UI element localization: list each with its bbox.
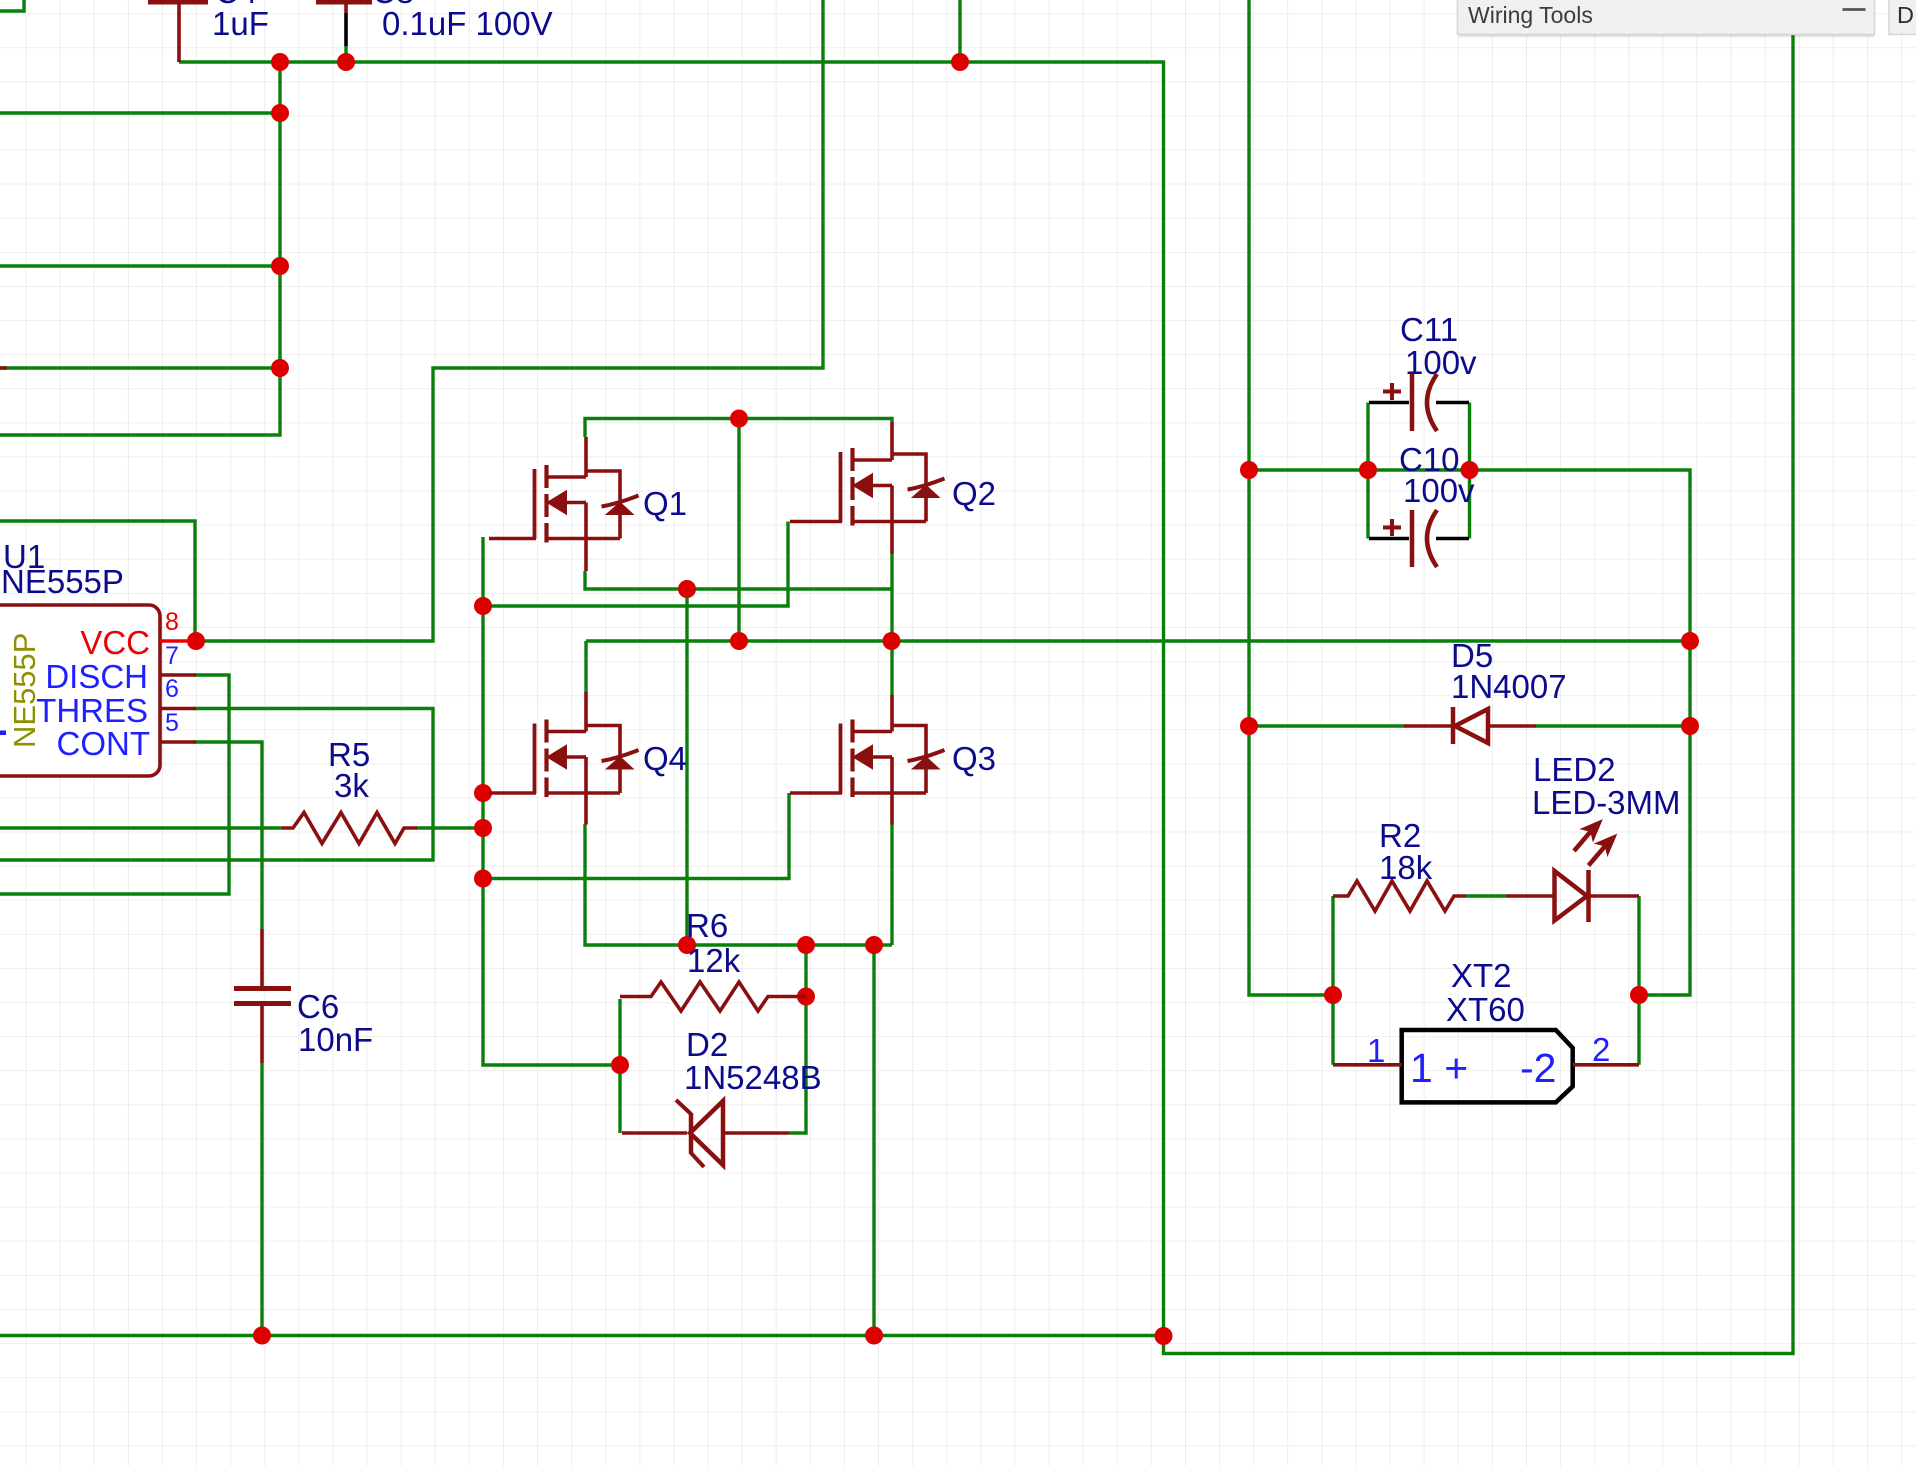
- svg-text:LED-3MM: LED-3MM: [1532, 784, 1681, 821]
- svg-text:3k: 3k: [334, 767, 369, 804]
- junction low rail x=806: [797, 936, 815, 954]
- pin 5 stub CONT: [160, 740, 196, 744]
- wire C-block top y=470 and right drop x=1690: [1249, 470, 1690, 995]
- svg-text:NE555P: NE555P: [7, 633, 42, 748]
- chip pin names: [36, 624, 150, 762]
- svg-text:7: 7: [165, 642, 179, 670]
- wire x=739 drop: [737, 419, 740, 642]
- junction bus C6: [253, 1327, 271, 1345]
- wire gate column x=483: [483, 537, 620, 1065]
- svg-text:12k: 12k: [687, 942, 741, 979]
- wire pin7 DISCH: [0, 675, 229, 894]
- wire D5 right: [1535, 724, 1690, 727]
- wire x=687 drop: [685, 589, 688, 945]
- junction y=266: [271, 257, 289, 275]
- junction gate net 2: [474, 870, 492, 888]
- wire R2-LED link: [1466, 894, 1506, 897]
- pin 8 stub VCC: [160, 639, 190, 643]
- svg-text:Q1: Q1: [643, 485, 687, 522]
- junction XT2 left: [1324, 986, 1342, 1004]
- junction vcc x=891: [883, 632, 901, 650]
- wire Q3 source drop: [890, 824, 893, 945]
- junction top rail: [730, 410, 748, 428]
- wire C11/C10 right vertical: [1468, 403, 1471, 539]
- wire R5 right: [416, 826, 483, 829]
- svg-text:C4: C4: [215, 0, 257, 10]
- wire XT2 pin2 riser: [1637, 995, 1640, 1065]
- resistor R2 18k: [1333, 881, 1466, 911]
- op-amp U1 NE555P chip body: [0, 605, 160, 776]
- svg-text:XT2: XT2: [1451, 957, 1512, 994]
- svg-text:VCC: VCC: [80, 624, 150, 661]
- wire bottom bus: [0, 1334, 1164, 1337]
- junction top bus B: [337, 53, 355, 71]
- transistor Q4: [489, 692, 639, 825]
- Q1 source lead: [584, 539, 588, 572]
- svg-text:R6: R6: [686, 907, 728, 944]
- junction y=368: [271, 359, 289, 377]
- svg-text:D: D: [1897, 2, 1914, 28]
- svg-text:THRES: THRES: [36, 692, 148, 729]
- clipped label bottoms at canvas top: [215, 0, 414, 10]
- wire C11/C10 left vertical: [1366, 403, 1369, 539]
- wire pin8 upper-left branch: [0, 521, 195, 641]
- junction top bus A: [271, 53, 289, 71]
- wire XT2 pin1 riser: [1331, 995, 1334, 1065]
- svg-text:DISCH: DISCH: [45, 658, 148, 695]
- svg-text:1: 1: [1367, 1032, 1385, 1069]
- wire C6 bottom: [260, 1063, 263, 1336]
- junction Q4 gate: [474, 784, 492, 802]
- svg-text:C8: C8: [372, 0, 414, 10]
- capacitor C2 top (0.1uF 100V) plate and lead: [316, 0, 372, 46]
- Q2 source lead: [890, 522, 894, 555]
- svg-text:C11: C11: [1400, 311, 1458, 348]
- svg-text:1N5248B: 1N5248B: [684, 1059, 822, 1096]
- diode D2 1N5248B zener: [622, 1100, 789, 1167]
- svg-text:1 +: 1 +: [1410, 1045, 1468, 1091]
- resistor R5 3k: [282, 813, 417, 844]
- capacitor C11 100v polarized: [1369, 374, 1469, 431]
- wire LED right riser: [1637, 896, 1640, 995]
- junction vcc x=1690: [1681, 632, 1699, 650]
- svg-text:XT60: XT60: [1446, 991, 1525, 1028]
- svg-text:2: 2: [1592, 1031, 1610, 1068]
- wire stub y=368: [0, 366, 280, 369]
- clipped blue pin-name dash at canvas left edge: [0, 731, 6, 736]
- svg-text:100v: 100v: [1405, 344, 1477, 381]
- wire gate net y=606 to Q2 gate: [483, 522, 788, 607]
- wire gate net y=878.5 to Q3 gate: [483, 793, 789, 879]
- junction R6 right: [797, 988, 815, 1006]
- svg-text:18k: 18k: [1379, 849, 1433, 886]
- junction cap block left: [1240, 461, 1258, 479]
- wire bridge top rail y=418.5: [585, 419, 892, 438]
- svg-text:Wiring Tools: Wiring Tools: [1468, 2, 1593, 28]
- svg-text:8: 8: [165, 608, 179, 636]
- svg-text:0.1uF 100V: 0.1uF 100V: [382, 5, 553, 42]
- junction R5 out: [474, 819, 492, 837]
- wire R6/D2 left vertical: [618, 999, 621, 1133]
- wire x=806 drop to D2: [789, 945, 806, 1133]
- PANELS: [1458, 0, 1916, 37]
- wire Q2 source to Q3 drain: [890, 554, 893, 695]
- junction gate net: [474, 597, 492, 615]
- resistor R6 12k: [620, 982, 806, 1011]
- capacitor C1 top (1uF) plate and lead: [148, 0, 208, 62]
- capacitor C10 100v polarized: [1369, 510, 1469, 567]
- wire R2 left riser: [1331, 896, 1334, 995]
- wire D5 left: [1250, 724, 1405, 727]
- transistor Q1: [489, 437, 639, 543]
- panel Drawing Tools (cut): [1889, 0, 1916, 35]
- wire x=874 drop: [872, 945, 875, 1336]
- svg-text:C6: C6: [297, 988, 339, 1025]
- junction bus x=1163: [1155, 1327, 1173, 1345]
- junction XT2 right: [1630, 986, 1648, 1004]
- wire left column x=280 down to y=435 then left: [0, 62, 280, 435]
- wire Q4 source drop: [585, 824, 892, 945]
- diode D5 1N4007: [1404, 707, 1536, 744]
- junction cap block mid: [1359, 461, 1377, 479]
- capacitor C6 10nF plates: [234, 929, 291, 1063]
- junction vcc x=739: [730, 632, 748, 650]
- chip pin numbers: [165, 608, 179, 737]
- pin 7 stub DISCH: [160, 673, 196, 677]
- wire pin8 to top via x=433 and x=823: [196, 0, 823, 641]
- wire stub y=113: [0, 111, 280, 114]
- wire top drop x=960: [958, 0, 961, 62]
- svg-text:100v: 100v: [1403, 472, 1475, 509]
- wire VCC mid y=641: [586, 639, 1690, 642]
- wire top-left corner: [0, 0, 24, 11]
- svg-text:D2: D2: [686, 1026, 728, 1063]
- svg-text:CONT: CONT: [57, 725, 151, 762]
- wire right spine x=1249: [1249, 0, 1333, 995]
- svg-text:5: 5: [165, 709, 179, 737]
- junction top bus C: [951, 53, 969, 71]
- junction y=113: [271, 104, 289, 122]
- svg-text:10nF: 10nF: [298, 1021, 373, 1058]
- junction low rail x=687: [678, 936, 696, 954]
- wire cap2 green stub: [344, 45, 347, 62]
- svg-text:Q3: Q3: [952, 740, 996, 777]
- junction bus x=874: [865, 1327, 883, 1345]
- svg-text:1uF: 1uF: [212, 5, 269, 42]
- junction pin8: [187, 632, 205, 650]
- junction D5 left: [1240, 717, 1258, 735]
- panel Wiring Tools: [1458, 0, 1875, 37]
- left pin stub (clipped) on y=368 wire: [0, 366, 7, 370]
- wire Q1 source to mid rail: [585, 571, 892, 589]
- wire Q4 drain riser: [584, 641, 587, 693]
- wire VCC top bus y=62 with long drop at x=1163: [179, 62, 1164, 1336]
- wire pin5 CONT to C6: [194, 742, 262, 929]
- junction D5 right: [1681, 717, 1699, 735]
- transistor Q2: [790, 422, 945, 526]
- junction low rail x=874: [865, 936, 883, 954]
- pin 6 stub THRES: [160, 707, 196, 711]
- svg-text:Q2: Q2: [952, 475, 996, 512]
- wire R5 left: [0, 826, 283, 829]
- junction cap block right: [1461, 461, 1479, 479]
- transistor Q3: [790, 695, 945, 825]
- wire pin6 THRES: [0, 709, 433, 861]
- svg-text:NE555P: NE555P: [1, 563, 124, 600]
- svg-text:LED2: LED2: [1533, 751, 1616, 788]
- svg-text:Q4: Q4: [643, 740, 687, 777]
- wire stub y=266: [0, 264, 280, 267]
- wire bottom-right riser: [1164, 35, 1794, 1354]
- LED2 LED-3MM: [1506, 822, 1639, 922]
- connector XT2 XT60 outline: [1333, 1030, 1639, 1102]
- junction mid rail: [678, 580, 696, 598]
- XT2 pin numbers and names: [1367, 1031, 1610, 1091]
- junction D2 left: [611, 1056, 629, 1074]
- svg-text:1N4007: 1N4007: [1451, 668, 1567, 705]
- svg-text:-2: -2: [1520, 1045, 1556, 1091]
- svg-text:6: 6: [165, 675, 179, 703]
